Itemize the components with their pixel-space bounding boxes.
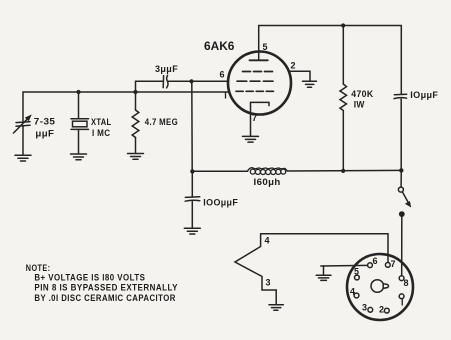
inductor L1 160uh (248, 168, 288, 175)
socket J1 pin 5 (355, 275, 360, 280)
wire: C4 to bottom rail (400, 99, 402, 170)
capacitor C3 100uuF (185, 171, 200, 227)
ground (below Y1) (71, 154, 87, 160)
node: junction dot at crystal top (76, 90, 80, 94)
tube U1 grid 2 (dashed) (237, 80, 273, 82)
wire: tank rail right segment (287, 169, 401, 172)
svg-text:7: 7 (391, 259, 396, 269)
socket J1 (octal tube socket, bottom view) (347, 254, 413, 320)
svg-text:5: 5 (354, 266, 359, 276)
svg-text:3: 3 (362, 302, 367, 312)
tube U1 grid 1 (dashed) (243, 71, 273, 73)
switch S1 (SPST blade to keying jack) (398, 170, 411, 217)
capacitor C4 10uuF (394, 94, 407, 98)
tube U1 plate (250, 52, 268, 60)
wire: tee down to ground (323, 266, 325, 275)
ground (socket pin 6) (316, 275, 331, 280)
svg-text:μμF: μμF (35, 129, 54, 140)
resistor R2 470K 1W (340, 84, 347, 111)
wire: grid node down to tank rail (crosses grid bus) (191, 81, 193, 171)
svg-text:PIN 8 IS BYPASSED EXTERNALLY: PIN 8 IS BYPASSED EXTERNALLY (34, 283, 178, 293)
node: junction dot grid node (189, 79, 193, 83)
socket J1 center keyway (371, 280, 389, 293)
capacitor C2 3uuF (163, 75, 168, 88)
svg-text:I60μh: I60μh (254, 177, 281, 188)
socket J1 pin 7 (385, 263, 390, 268)
svg-text:7-35: 7-35 (34, 117, 56, 128)
wire: cathode pin 7 to ground (250, 107, 252, 136)
wire: P1 terminal 4 to socket pin 7 (261, 234, 388, 262)
socket J1 pin 6 (368, 263, 373, 268)
svg-text:I: I (401, 298, 404, 308)
variable capacitor C1 7-35uuF (14, 92, 32, 154)
wire: top rail corner down to C4 (400, 26, 402, 95)
connector P1 (plug prongs 4 and 3) (235, 234, 276, 304)
svg-text:B+ VOLTAGE IS I80 VOLTS: B+ VOLTAGE IS I80 VOLTS (34, 272, 145, 282)
svg-text:470K: 470K (351, 89, 373, 100)
ground (P1 terminal 3) (269, 305, 283, 311)
svg-text:4: 4 (350, 287, 355, 297)
socket J1 pin 2 (384, 308, 389, 313)
wire: tank rail left segment (192, 170, 247, 172)
ground (below C1) (15, 155, 31, 161)
svg-text:IOOμμF: IOOμμF (203, 197, 238, 208)
svg-text:6: 6 (220, 70, 225, 80)
wire: pin 2 to ground (289, 71, 310, 81)
svg-text:4: 4 (265, 236, 270, 246)
node: junction dot at switch top (399, 168, 403, 172)
resistor R1 4.7 MEG (132, 92, 139, 153)
svg-text:BY .0I DISC CERAMIC CAPACITOR: BY .0I DISC CERAMIC CAPACITOR (34, 293, 175, 303)
svg-text:5: 5 (263, 42, 268, 52)
node: junction dot at R2 bottom (341, 169, 345, 173)
wire: B+ top rail (259, 25, 402, 27)
node: junction dot at R1 top / C2 branch (133, 90, 137, 94)
note text block (26, 263, 178, 303)
socket J1 pin 1 (399, 294, 404, 299)
svg-text:6: 6 (373, 256, 378, 266)
wire: plate pin 5 riser to B+ rail (258, 26, 260, 53)
wire: switch to socket pin 8 (401, 214, 403, 276)
ground (below R1) (128, 154, 144, 160)
label R2 value 470K 1W (351, 89, 373, 111)
svg-text:IOμμF: IOμμF (410, 90, 438, 101)
svg-text:4.7 MEG: 4.7 MEG (145, 117, 178, 128)
svg-text:IW: IW (354, 100, 365, 111)
svg-text:2: 2 (291, 61, 296, 71)
svg-text:6AK6: 6AK6 (204, 41, 234, 53)
svg-text:8: 8 (404, 278, 409, 288)
socket J1 pin 3 (368, 307, 373, 312)
socket J1 pin 8 (399, 276, 404, 281)
label Y1 value XTAL 1 MC (91, 117, 112, 139)
svg-text:I MC: I MC (92, 128, 110, 139)
tube U1 cathode (251, 102, 270, 106)
svg-text:3μμF: 3μμF (155, 64, 178, 75)
ground (pin 7 cathode) (243, 136, 259, 142)
socket J1 pin 4 (354, 293, 359, 298)
ground (pin 2) (303, 81, 317, 87)
svg-text:I: I (224, 91, 227, 101)
svg-text:7: 7 (252, 113, 257, 123)
wire: socket pin 6 to ground tee (321, 264, 368, 267)
wire: from R1 node up and right to coupling capacitor C2 (136, 81, 163, 92)
label C1 value 7-35 uuF (34, 117, 56, 140)
wire: grid bus from C1 to tube pin 1, y=92 (23, 91, 230, 93)
ground (below C3) (184, 228, 200, 234)
crystal Y1 XTAL 1MC (71, 92, 89, 153)
svg-text:2: 2 (379, 305, 384, 315)
svg-text:3: 3 (266, 278, 271, 288)
node: junction dot at C3 top (190, 169, 194, 173)
wire: grid node to tube pin 6 (192, 80, 229, 82)
wire: top rail down to R2 (342, 26, 344, 85)
wire: R2 to bottom rail (342, 111, 344, 171)
node: junction dot at R2 top (341, 23, 345, 27)
tube U1 6AK6 envelope (228, 52, 291, 115)
tube U1 grid 3 (dashed) (236, 90, 274, 92)
svg-text:XTAL: XTAL (91, 117, 112, 128)
wire: C2 to grid node (168, 80, 191, 82)
